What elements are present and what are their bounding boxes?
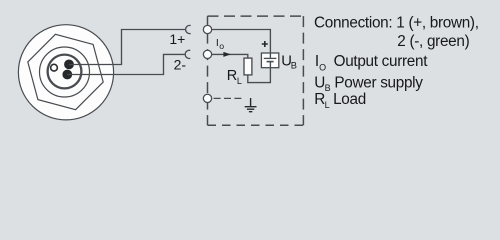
battery short plate [267, 61, 274, 63]
svg-text:B: B [291, 60, 297, 70]
svg-text:Power supply: Power supply [334, 75, 423, 92]
battery U_B box [261, 53, 278, 68]
svg-text:2 (-, green): 2 (-, green) [397, 33, 469, 50]
wire pin2 to 2- contact [67, 54, 184, 74]
wire terminal2 to R_L (I_o) [212, 54, 248, 58]
connector J1 outer shell circle [18, 25, 113, 120]
socket contact arc 1 [186, 25, 191, 33]
svg-text:B: B [325, 83, 331, 93]
connector J1 hex nut [28, 34, 103, 109]
socket contact arc 2 [185, 50, 190, 58]
resistor R_L [244, 58, 252, 75]
dashed box left edge [207, 16, 209, 125]
svg-text:o: o [219, 41, 224, 51]
connector pin 1 (filled) [64, 60, 74, 70]
dashed box top edge [208, 15, 304, 17]
terminal 3 circle [203, 94, 211, 102]
svg-text:L: L [325, 100, 330, 110]
svg-text:1+: 1+ [169, 31, 185, 47]
wire terminal1 to battery plus [212, 30, 271, 59]
battery long plate [264, 57, 277, 59]
connector J1 body circle [40, 47, 90, 97]
svg-text:2-: 2- [174, 56, 187, 72]
connector pin 3 (open) [51, 64, 58, 71]
svg-text:Output current: Output current [334, 53, 429, 70]
wire battery minus to R_L bottom [248, 62, 271, 83]
dashed box bottom edge [208, 124, 304, 126]
svg-text:Connection: 1 (+, brown),: Connection: 1 (+, brown), [314, 15, 479, 32]
svg-text:L: L [237, 76, 242, 86]
connector J1 insert circle [48, 55, 82, 89]
svg-text:R: R [227, 68, 237, 84]
wire pin1 to 1+ contact [69, 30, 185, 65]
battery plus sign [262, 41, 268, 47]
svg-text:Load: Load [333, 91, 366, 108]
svg-text:O: O [319, 62, 326, 72]
current arrow I_o [223, 52, 231, 57]
terminal 1 circle [203, 25, 211, 33]
dashed box right edge [302, 16, 304, 125]
ground symbol [245, 98, 257, 112]
connector pin 2 (filled) [62, 70, 72, 80]
terminal 2 circle [203, 50, 211, 58]
dashed wire terminal3 to ground [214, 97, 242, 99]
